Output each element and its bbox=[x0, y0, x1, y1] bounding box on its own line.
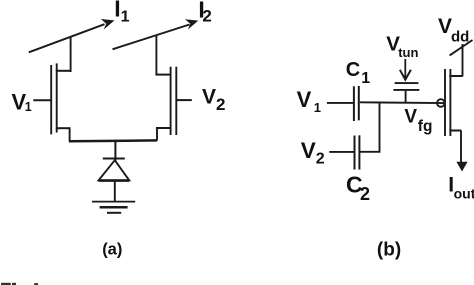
svg-text:(b): (b) bbox=[377, 239, 401, 260]
svg-text:C: C bbox=[346, 59, 360, 81]
svg-text:1: 1 bbox=[314, 100, 321, 115]
label C2 bbox=[346, 172, 370, 205]
wire: C2 branch to floating gate bbox=[360, 103, 381, 153]
svg-text:out: out bbox=[454, 186, 474, 202]
arrow: tunneling bbox=[400, 59, 411, 80]
transistor M1 bbox=[51, 63, 71, 141]
svg-text:2: 2 bbox=[216, 95, 225, 114]
arrow Iout head bbox=[456, 162, 467, 172]
svg-text:V: V bbox=[202, 86, 216, 109]
label Vdd bbox=[438, 15, 469, 46]
label I1 bbox=[114, 0, 129, 25]
svg-text:V: V bbox=[404, 107, 417, 128]
label Vfg bbox=[404, 107, 432, 135]
wire: V2 to C2 bbox=[329, 151, 353, 153]
label V2 (b) bbox=[301, 138, 325, 167]
wire: drain down to Iout bbox=[460, 131, 462, 164]
wire: V2 gate lead bbox=[177, 99, 192, 101]
transistor M2 bbox=[156, 67, 177, 141]
label V1 (b) bbox=[297, 87, 321, 115]
svg-text:1: 1 bbox=[25, 100, 32, 114]
wire: Vdd lead bbox=[462, 44, 464, 77]
svg-text:2: 2 bbox=[360, 184, 370, 204]
power Vdd slash bbox=[450, 40, 473, 55]
wire: tail node drop bbox=[114, 140, 116, 162]
wire: M2 drain lead up bbox=[155, 35, 157, 76]
svg-text:V: V bbox=[438, 15, 452, 38]
caption fragment "Fig. 1" (cut off) bbox=[1, 283, 38, 285]
wire: V1 gate lead bbox=[33, 99, 51, 101]
svg-text:fg: fg bbox=[418, 118, 433, 135]
diode D1 bbox=[99, 159, 130, 181]
svg-text:tun: tun bbox=[398, 45, 418, 60]
wire: common source bus bbox=[69, 139, 157, 142]
transistor Q1 (pFET) bbox=[437, 69, 462, 136]
capacitor C2 bbox=[355, 135, 360, 169]
label C1 bbox=[346, 59, 371, 87]
svg-text:dd: dd bbox=[451, 29, 469, 46]
current arrow I2 bbox=[113, 19, 199, 49]
capacitor C1 bbox=[354, 86, 359, 121]
wire: V1 to C1 bbox=[327, 102, 353, 104]
svg-text:V: V bbox=[301, 138, 316, 163]
wire: diode to ground bbox=[114, 181, 116, 201]
wire: M1 drain lead up bbox=[70, 37, 72, 73]
label V1 bbox=[12, 89, 32, 114]
svg-text:1: 1 bbox=[121, 8, 130, 25]
svg-text:(a): (a) bbox=[102, 240, 122, 258]
net: floating gate wire bbox=[360, 101, 444, 104]
svg-text:2: 2 bbox=[316, 150, 325, 167]
label Vtun bbox=[386, 32, 418, 60]
label I2 bbox=[198, 0, 211, 26]
current arrow I1 bbox=[29, 19, 115, 52]
svg-text:1: 1 bbox=[361, 70, 370, 87]
label V2 bbox=[202, 86, 225, 114]
svg-text:V: V bbox=[297, 87, 312, 112]
ground bbox=[92, 202, 135, 213]
label Iout bbox=[448, 174, 474, 202]
capacitor Ctun (tunneling junction) bbox=[393, 83, 419, 102]
svg-text:2: 2 bbox=[202, 7, 211, 26]
